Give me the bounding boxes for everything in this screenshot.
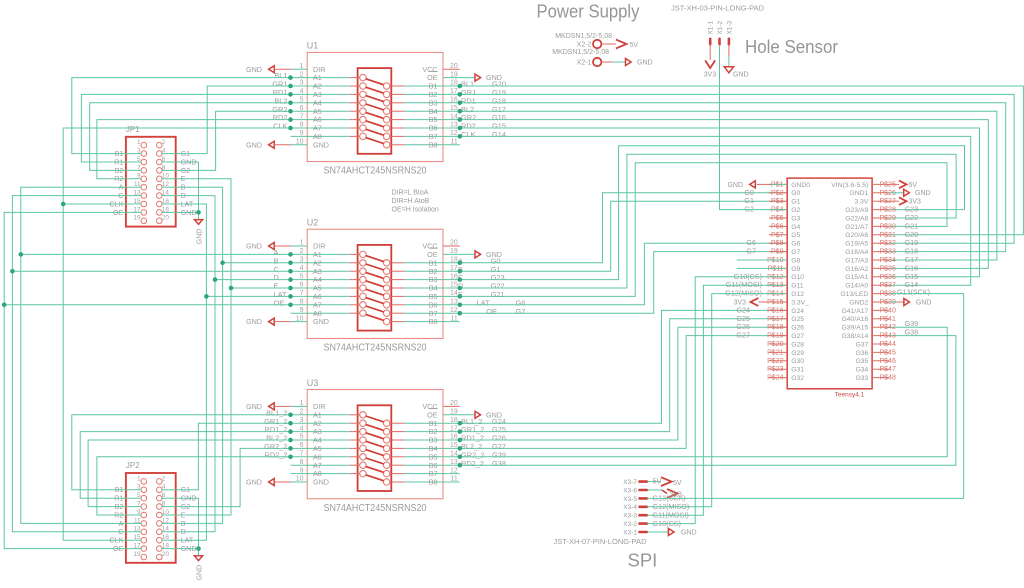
svg-text:GND: GND	[197, 229, 204, 245]
wire GND JP2 pin18	[162, 548, 199, 550]
junction LAT at U2	[204, 294, 209, 299]
svg-text:4: 4	[300, 265, 304, 272]
svg-text:7: 7	[300, 451, 304, 458]
svg-text:G39/A15: G39/A15	[841, 325, 868, 332]
wire net G6	[443, 243, 787, 305]
svg-text:DIR=H AtoB: DIR=H AtoB	[392, 198, 430, 205]
svg-text:GND: GND	[733, 72, 749, 79]
svg-text:G1: G1	[791, 199, 800, 206]
svg-text:P$2: P$2	[771, 190, 784, 197]
svg-text:8: 8	[300, 459, 304, 466]
svg-text:P$31: P$31	[880, 232, 896, 239]
svg-text:DIR=L BtoA: DIR=L BtoA	[392, 190, 429, 197]
U3 net labels	[264, 408, 506, 467]
svg-text:GND2: GND2	[849, 299, 868, 306]
svg-text:P$32: P$32	[880, 240, 896, 247]
svg-text:CLK: CLK	[273, 122, 287, 131]
svg-text:X3-6: X3-6	[623, 487, 637, 494]
wire net R1	[81, 94, 290, 162]
svg-text:5V: 5V	[653, 477, 662, 486]
supply 3V3 at Teensy P$27	[889, 197, 921, 205]
svg-text:X1-1: X1-1	[708, 20, 715, 34]
svg-text:G13/LED: G13/LED	[840, 291, 868, 298]
ground at U3 pin19 OE	[443, 410, 502, 419]
wire net G2	[162, 111, 291, 170]
svg-text:9: 9	[300, 467, 304, 474]
U2 net labels	[274, 248, 526, 316]
ground symbol below JP2	[194, 549, 203, 581]
wire nub U2 pin11 B8	[443, 321, 460, 323]
svg-text:GND: GND	[246, 242, 262, 251]
wire net G15	[443, 128, 980, 277]
svg-text:G10: G10	[791, 274, 804, 281]
svg-text:19: 19	[133, 551, 141, 558]
wire GND JP2	[162, 498, 199, 555]
svg-text:OE: OE	[486, 307, 497, 316]
wire net G16	[443, 120, 988, 269]
svg-text:SN74AHCT245NSRNS20: SN74AHCT245NSRNS20	[324, 166, 427, 177]
junction E at U2	[229, 286, 234, 291]
svg-text:JP1: JP1	[126, 125, 140, 134]
wire net RD2_2	[97, 457, 291, 515]
ground at X2-1	[626, 59, 653, 67]
wire net G1	[443, 201, 787, 271]
svg-text:GND: GND	[313, 140, 329, 149]
svg-text:P$5: P$5	[771, 215, 784, 222]
svg-text:X3-1: X3-1	[623, 529, 637, 536]
connector X3 JST-XH-07-PIN-LONG-PAD	[554, 479, 648, 546]
svg-text:VIN(3.6-5.5): VIN(3.6-5.5)	[831, 182, 868, 189]
ground at U3 pin1 DIR	[246, 402, 307, 411]
wire net B1	[72, 78, 291, 154]
svg-text:P$17: P$17	[767, 316, 783, 323]
svg-text:G18/A4: G18/A4	[845, 249, 868, 256]
svg-text:2: 2	[300, 248, 304, 255]
svg-text:7: 7	[300, 290, 304, 297]
svg-text:G28: G28	[791, 341, 804, 348]
wire net G2 from X1-2	[720, 46, 788, 210]
svg-text:P$46: P$46	[880, 358, 896, 365]
svg-text:6: 6	[300, 105, 304, 112]
svg-text:GND: GND	[246, 65, 262, 74]
connector X1 JST-XH-03-PIN-LONG-PAD	[671, 5, 764, 44]
svg-text:G29: G29	[791, 350, 804, 357]
svg-text:G2: G2	[791, 207, 800, 214]
svg-text:GND: GND	[681, 529, 697, 536]
wire net CLK to JP1	[63, 203, 141, 205]
svg-text:G25: G25	[791, 316, 804, 323]
svg-text:U2: U2	[307, 217, 319, 227]
junction A at U2	[19, 252, 24, 257]
wire nub U3 pin11 B8	[443, 481, 460, 483]
svg-text:X2-2: X2-2	[577, 42, 592, 49]
junctions at U3 inputs	[288, 413, 293, 460]
svg-text:G38: G38	[492, 459, 506, 468]
ground at U1 pin10 GND	[246, 140, 307, 149]
svg-text:MKDSN1,5/2-5,08: MKDSN1,5/2-5,08	[555, 33, 612, 40]
svg-text:RD2_2: RD2_2	[461, 459, 484, 468]
svg-text:GND1: GND1	[849, 190, 868, 197]
junctions at U2 outputs	[458, 261, 463, 316]
svg-text:P$42: P$42	[880, 324, 896, 331]
wire net G17	[443, 111, 997, 260]
svg-text:Hole Sensor: Hole Sensor	[745, 36, 838, 57]
wire net G27	[443, 336, 787, 449]
wire net RD1_2	[80, 432, 290, 499]
IC U3 SN74AHCT245NSRNS20	[291, 378, 458, 514]
svg-text:P$40: P$40	[880, 307, 896, 314]
junctions at U1 inputs	[288, 75, 293, 130]
svg-text:G21/A7: G21/A7	[845, 224, 868, 231]
svg-text:G7: G7	[516, 307, 526, 316]
svg-text:B8: B8	[429, 317, 438, 326]
svg-text:GND: GND	[916, 299, 932, 306]
svg-text:OE: OE	[274, 298, 285, 307]
svg-text:GND: GND	[246, 140, 262, 149]
svg-text:B8: B8	[429, 140, 438, 149]
U2 pin20 VCC stub	[443, 245, 460, 247]
wire net BL1_2	[72, 415, 291, 490]
wire GND JP1 pin18	[162, 211, 199, 213]
svg-text:P$37: P$37	[880, 282, 896, 289]
svg-text:G26: G26	[791, 325, 804, 332]
svg-text:3V3: 3V3	[704, 72, 717, 79]
svg-text:3: 3	[300, 80, 304, 87]
svg-text:P$9: P$9	[771, 249, 784, 256]
svg-text:P$48: P$48	[880, 375, 896, 382]
wire nub Teensy P$11	[737, 267, 788, 269]
supply 3V3 at X1-1	[704, 44, 717, 78]
ground at X1-3	[724, 44, 748, 78]
svg-text:OE=H Isolation: OE=H Isolation	[392, 206, 439, 213]
wire net OE to U2	[4, 304, 290, 306]
wire net R2	[97, 120, 291, 179]
ground at U3 pin10 GND	[246, 478, 307, 487]
svg-text:P$43: P$43	[880, 333, 896, 340]
wire net D to U2	[215, 279, 291, 281]
wire net LAT to U2	[206, 295, 290, 297]
svg-text:P$33: P$33	[880, 249, 896, 256]
wire net G25	[443, 319, 787, 432]
junction CLK at JP1	[61, 202, 66, 207]
junctions at U2 inputs	[288, 252, 293, 307]
svg-text:P$8: P$8	[771, 240, 784, 247]
svg-text:G27: G27	[791, 333, 804, 340]
svg-text:GND: GND	[915, 190, 931, 197]
wire net G1	[162, 86, 291, 154]
svg-text:5V: 5V	[630, 42, 639, 49]
svg-text:G4: G4	[791, 224, 800, 231]
svg-text:P$18: P$18	[767, 324, 783, 331]
junction B at U2	[220, 261, 225, 266]
wire net G18	[443, 103, 1006, 252]
wire net G23	[443, 146, 965, 280]
svg-text:P$16: P$16	[767, 307, 783, 314]
svg-text:G32: G32	[791, 375, 804, 382]
svg-text:3: 3	[300, 257, 304, 264]
U1 net labels	[272, 71, 506, 139]
svg-text:SN74AHCT245NSRNS20: SN74AHCT245NSRNS20	[324, 503, 427, 514]
svg-text:GND: GND	[246, 478, 262, 487]
svg-text:2: 2	[300, 71, 304, 78]
svg-text:G38: G38	[905, 328, 919, 337]
wire net G24	[443, 310, 787, 423]
svg-text:P$29: P$29	[880, 215, 896, 222]
wire net G19	[443, 94, 1014, 243]
svg-text:JP2: JP2	[126, 461, 140, 470]
wire net OE rail	[4, 212, 141, 548]
wire net G0	[443, 193, 787, 263]
terminal X2-2 MKDSN1,5/2-5,08	[555, 33, 616, 49]
svg-text:G40/A16: G40/A16	[841, 316, 868, 323]
svg-text:P$24: P$24	[767, 375, 783, 382]
svg-text:7: 7	[300, 113, 304, 120]
svg-text:2: 2	[162, 139, 166, 146]
svg-text:G7: G7	[791, 249, 800, 256]
svg-text:P$19: P$19	[767, 333, 783, 340]
svg-text:8: 8	[300, 122, 304, 129]
svg-text:U1: U1	[307, 41, 319, 51]
svg-text:8: 8	[300, 299, 304, 306]
svg-text:GND: GND	[313, 317, 329, 326]
junctions at U3 outputs	[458, 421, 463, 468]
ground at X3-1	[647, 529, 697, 537]
junction D at U2	[213, 277, 218, 282]
ground at U2 pin1 DIR	[246, 242, 307, 251]
connector JP1 2x10 header	[109, 125, 196, 227]
svg-text:SPI: SPI	[628, 549, 658, 570]
svg-text:U3: U3	[307, 378, 319, 388]
svg-text:GND: GND	[313, 478, 329, 487]
ground at U1 pin1 DIR	[246, 65, 307, 74]
svg-text:G24: G24	[791, 308, 804, 315]
junction OE at U2	[2, 303, 7, 308]
svg-text:P$20: P$20	[767, 341, 783, 348]
svg-text:20: 20	[162, 551, 170, 558]
U1 pin20 VCC stub	[443, 68, 460, 70]
svg-text:X3-2: X3-2	[623, 521, 637, 528]
svg-text:G8: G8	[791, 257, 800, 264]
ground at U2 pin10 GND	[246, 317, 307, 326]
svg-text:RD2_2: RD2_2	[264, 450, 287, 459]
terminal X2-1 MKDSN1,5/2-5,08	[552, 49, 625, 67]
svg-text:1: 1	[137, 139, 141, 146]
svg-text:G31: G31	[791, 367, 804, 374]
svg-text:G22/A8: G22/A8	[845, 215, 868, 222]
svg-text:P$23: P$23	[767, 366, 783, 373]
svg-text:GND: GND	[246, 402, 262, 411]
svg-text:G13(SCK): G13(SCK)	[897, 288, 930, 297]
svg-text:G19/A5: G19/A5	[845, 241, 868, 248]
svg-text:4: 4	[300, 425, 304, 432]
svg-text:3.3V_: 3.3V_	[791, 299, 809, 306]
svg-text:1: 1	[137, 475, 141, 482]
wire GND JP1	[162, 162, 199, 219]
svg-text:G21: G21	[491, 290, 505, 299]
wire net B to U2	[223, 262, 291, 264]
IC U1 SN74AHCT245NSRNS20	[291, 41, 458, 177]
svg-text:6: 6	[300, 282, 304, 289]
ground symbol below JP1	[194, 212, 203, 244]
svg-text:2: 2	[300, 409, 304, 416]
junction GND JP1	[196, 210, 201, 215]
IC U2 SN74AHCT245NSRNS20	[291, 217, 458, 353]
svg-text:P$41: P$41	[880, 316, 896, 323]
ground at U2 pin19 OE	[443, 250, 502, 259]
svg-text:G20/A6: G20/A6	[845, 232, 868, 239]
svg-text:GND: GND	[727, 182, 743, 189]
svg-text:G12: G12	[791, 291, 804, 298]
svg-text:5: 5	[300, 273, 304, 280]
ground at Teensy P$1	[727, 181, 787, 189]
wire net E to U2	[231, 287, 291, 289]
svg-text:P$3: P$3	[771, 198, 784, 205]
svg-text:P$6: P$6	[771, 223, 784, 230]
Teensy net labels	[725, 188, 930, 340]
svg-text:G3: G3	[791, 215, 800, 222]
svg-text:G9: G9	[791, 266, 800, 273]
svg-text:JST-XH-07-PIN-LONG-PAD: JST-XH-07-PIN-LONG-PAD	[554, 539, 647, 546]
wire net G38	[443, 336, 956, 466]
svg-text:P$22: P$22	[767, 358, 783, 365]
svg-text:X2-1: X2-1	[577, 60, 592, 67]
svg-text:P$7: P$7	[771, 232, 784, 239]
svg-text:9: 9	[300, 130, 304, 137]
svg-text:5: 5	[300, 97, 304, 104]
wire net A rail	[21, 187, 142, 523]
svg-text:G5: G5	[791, 232, 800, 239]
svg-text:G11: G11	[791, 283, 804, 290]
wire net G20	[443, 86, 1023, 235]
wire net G21	[443, 163, 947, 297]
wire net G14	[443, 136, 971, 285]
svg-text:X3-7: X3-7	[623, 479, 637, 486]
wire net G22	[443, 154, 956, 288]
svg-text:4: 4	[300, 88, 304, 95]
svg-text:6: 6	[300, 442, 304, 449]
svg-text:X3-4: X3-4	[623, 504, 637, 511]
svg-text:X3-5: X3-5	[623, 496, 637, 503]
wire net B2	[90, 103, 291, 171]
svg-text:G6: G6	[791, 241, 800, 248]
microcontroller Teensy4.1 module	[767, 178, 896, 398]
svg-text:MKDSN1,5/2-5,08: MKDSN1,5/2-5,08	[552, 49, 609, 56]
svg-text:G41/A17: G41/A17	[841, 308, 868, 315]
svg-text:G27: G27	[736, 331, 750, 340]
wire net C to U2	[12, 270, 290, 272]
svg-text:2: 2	[162, 475, 166, 482]
wire net G39	[443, 327, 947, 457]
supply 3V3 at X3-6	[647, 489, 682, 498]
svg-text:Teensy4.1: Teensy4.1	[835, 392, 865, 399]
supply 5V at X2-2	[616, 40, 638, 49]
svg-text:P$36: P$36	[880, 274, 896, 281]
svg-text:G34: G34	[855, 367, 868, 374]
svg-text:3.3V: 3.3V	[854, 199, 868, 206]
svg-text:G38/A14: G38/A14	[841, 333, 868, 340]
svg-text:Power Supply: Power Supply	[537, 1, 641, 22]
svg-text:GND: GND	[637, 60, 653, 67]
svg-text:G15/A1: G15/A1	[845, 274, 868, 281]
svg-text:G36: G36	[855, 350, 868, 357]
svg-text:9: 9	[300, 307, 304, 314]
svg-text:P$30: P$30	[880, 223, 896, 230]
svg-text:X1-3: X1-3	[726, 20, 733, 34]
svg-text:G33: G33	[855, 375, 868, 382]
wire net LAT rail	[162, 204, 207, 540]
wire net G11(MOSI) X3-3 to Teensy P$13	[647, 285, 787, 519]
wire net D rail	[162, 196, 216, 532]
wire net BL2_2	[88, 440, 290, 507]
junction C at U2	[10, 269, 15, 274]
wire net GR1_2	[162, 423, 291, 490]
wire net G12(MISO) X3-4 to Teensy P$14	[647, 294, 787, 512]
ground at Teensy P$26	[889, 189, 931, 197]
svg-text:P$45: P$45	[880, 349, 896, 356]
wire nub U1 pin11 B8	[443, 144, 460, 146]
junction GND JP2	[196, 546, 201, 551]
svg-text:B8: B8	[429, 478, 438, 487]
svg-text:3: 3	[300, 417, 304, 424]
wire net G10(CS) X3-2 to Teensy P$12	[647, 277, 787, 528]
svg-text:GND: GND	[246, 317, 262, 326]
wire net GR2_2	[162, 448, 291, 506]
svg-text:G14: G14	[492, 130, 506, 139]
wire net G26	[443, 327, 787, 440]
svg-text:CLK: CLK	[461, 130, 475, 139]
connector JP2 2x10 header	[109, 461, 196, 563]
junctions at U1 outputs	[458, 84, 463, 139]
svg-text:5: 5	[300, 434, 304, 441]
wire net G7	[443, 252, 787, 314]
svg-text:5V: 5V	[909, 182, 918, 189]
U3 pin20 VCC stub	[443, 405, 460, 407]
svg-text:G37: G37	[855, 341, 868, 348]
svg-text:G17/A3: G17/A3	[845, 257, 868, 264]
svg-text:P$28: P$28	[880, 207, 896, 214]
wire net CLK rail	[63, 128, 290, 540]
svg-text:G14/A0: G14/A0	[845, 283, 868, 290]
svg-text:G23/A9: G23/A9	[845, 207, 868, 214]
wire net A to U2	[21, 253, 291, 255]
svg-text:5V: 5V	[673, 480, 682, 487]
svg-text:G35: G35	[855, 358, 868, 365]
svg-text:P$47: P$47	[880, 366, 896, 373]
svg-text:GND: GND	[197, 565, 204, 581]
ground at U1 pin19 OE	[443, 73, 502, 82]
svg-text:P$35: P$35	[880, 265, 896, 272]
svg-text:20: 20	[162, 215, 170, 222]
svg-text:P$44: P$44	[880, 341, 896, 348]
svg-text:GND0: GND0	[791, 182, 810, 189]
supply 3V3 at Teensy P$15	[734, 298, 788, 306]
ground at Teensy P$39	[889, 299, 931, 307]
svg-text:G0: G0	[791, 190, 800, 197]
svg-text:JST-XH-03-PIN-LONG-PAD: JST-XH-03-PIN-LONG-PAD	[671, 5, 764, 12]
svg-text:P$34: P$34	[880, 257, 896, 264]
svg-text:G30: G30	[791, 358, 804, 365]
svg-text:G16/A2: G16/A2	[845, 266, 868, 273]
wire nub U3 pin12 B7	[443, 473, 460, 475]
svg-text:X3-3: X3-3	[623, 513, 637, 520]
wire net B rail	[162, 187, 223, 523]
wire net G13(SCK) X3-5 to Teensy P$38	[647, 294, 964, 503]
svg-text:X1-2: X1-2	[717, 20, 724, 34]
supply 5V at Teensy P$25	[889, 181, 917, 189]
svg-text:19: 19	[133, 215, 141, 222]
svg-text:P$21: P$21	[767, 349, 783, 356]
svg-text:G7: G7	[746, 247, 756, 256]
